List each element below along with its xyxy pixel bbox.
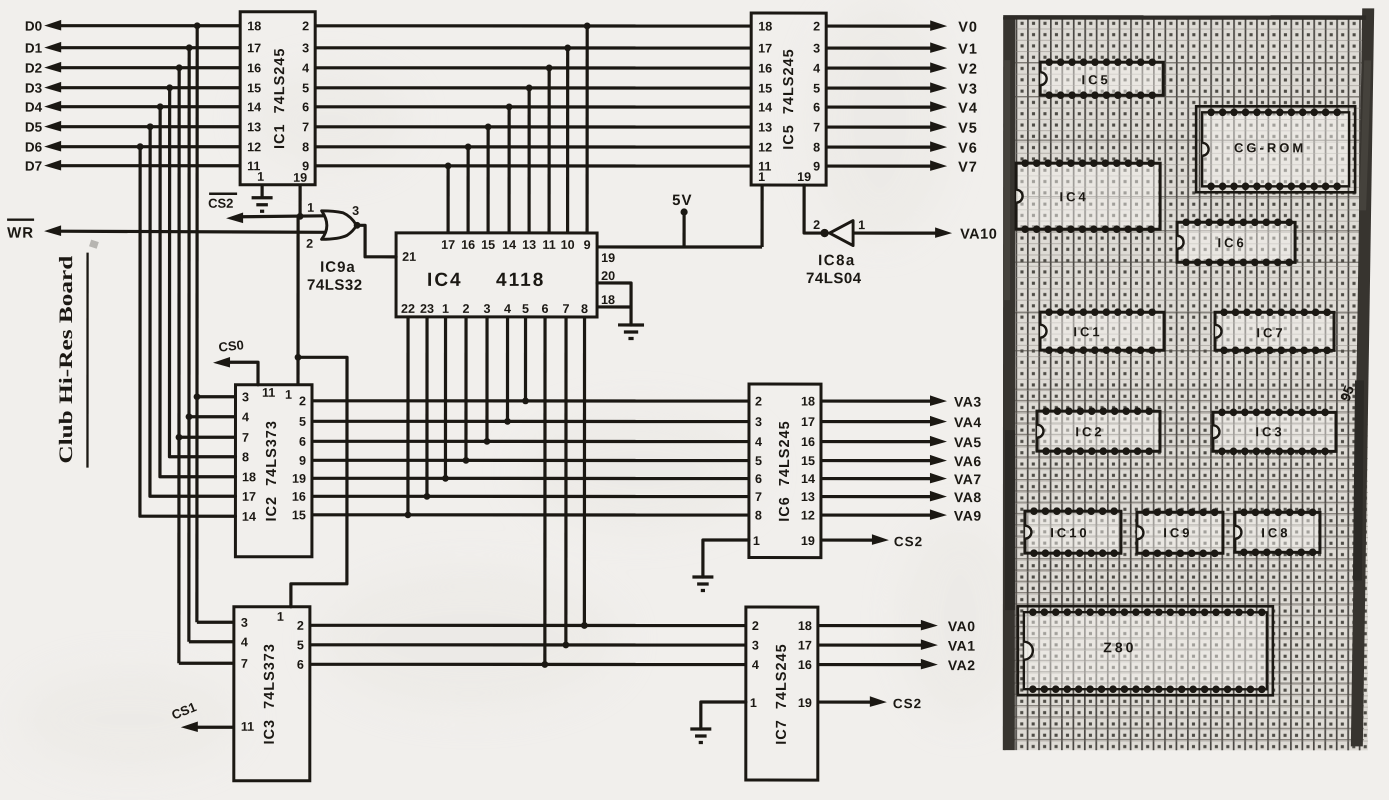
svg-text:7: 7 <box>302 120 309 134</box>
svg-text:18: 18 <box>247 19 261 33</box>
wire latch-enable link <box>291 216 347 607</box>
wire CS0 <box>213 337 258 385</box>
wire IC4 pin 13 <box>526 85 533 233</box>
board right dark edge <box>1351 8 1374 746</box>
svg-text:6: 6 <box>813 101 820 115</box>
svg-text:V7: V7 <box>958 160 978 176</box>
svg-text:4: 4 <box>813 62 820 76</box>
svg-text:IC7: IC7 <box>1256 325 1285 340</box>
svg-text:VA10: VA10 <box>960 227 997 243</box>
svg-text:18: 18 <box>801 395 815 409</box>
wire D2 to latch <box>175 68 235 664</box>
wire data row 2 IC1-IC5 <box>315 66 751 69</box>
wire IC4 pin 11 <box>546 65 553 233</box>
wire CS2 from IC7 <box>818 696 922 711</box>
power 5V <box>672 192 692 247</box>
svg-text:14: 14 <box>502 238 516 252</box>
svg-text:1: 1 <box>442 302 449 316</box>
op IC6 74LS245 <box>749 384 821 558</box>
wire IC4 bottom pin 1 <box>504 317 511 425</box>
wire D3 to latch <box>169 88 235 457</box>
wire D7 <box>25 159 240 174</box>
svg-text:19: 19 <box>801 534 815 548</box>
wire V0 <box>826 20 978 36</box>
svg-text:V1: V1 <box>958 42 978 58</box>
svg-text:16: 16 <box>801 435 815 449</box>
svg-text:IC2 74LS373: IC2 74LS373 <box>264 420 280 521</box>
wire IC4 pin 17 <box>445 162 452 232</box>
svg-text:13: 13 <box>758 121 772 135</box>
board IC6 footprint <box>1177 218 1295 266</box>
ground IC7 pin1 <box>690 702 746 743</box>
svg-text:2: 2 <box>463 302 470 316</box>
svg-text:V2: V2 <box>958 62 978 78</box>
svg-text:16: 16 <box>461 238 475 252</box>
wire VA1 row <box>310 643 746 646</box>
board IC4 footprint <box>1016 159 1160 233</box>
svg-text:6: 6 <box>297 658 304 672</box>
svg-text:IC6: IC6 <box>1217 235 1246 250</box>
svg-text:7: 7 <box>242 431 249 445</box>
svg-text:6: 6 <box>755 472 762 486</box>
svg-text:17: 17 <box>801 415 815 429</box>
svg-text:8: 8 <box>755 509 762 523</box>
scan noise <box>20 0 1020 770</box>
wire D0 to latch <box>193 26 235 623</box>
svg-text:23: 23 <box>420 302 434 316</box>
svg-text:D0: D0 <box>25 19 42 34</box>
svg-text:5V: 5V <box>672 192 692 209</box>
svg-text:18: 18 <box>242 470 256 484</box>
wire IC4 bottom pin 7 <box>541 317 548 668</box>
svg-text:3: 3 <box>755 415 762 429</box>
wire VA7 output <box>821 471 982 487</box>
wire VA5 row <box>312 440 749 443</box>
svg-text:VA8: VA8 <box>954 489 982 505</box>
svg-text:18: 18 <box>798 619 812 633</box>
svg-text:D7: D7 <box>25 159 42 174</box>
wire CS2 from IC6 <box>821 534 923 549</box>
svg-text:VA9: VA9 <box>954 508 982 524</box>
wire IC4 bottom pin 8 <box>562 317 569 648</box>
svg-text:3: 3 <box>241 616 248 630</box>
wire VA1 output <box>818 638 976 654</box>
svg-text:3: 3 <box>813 42 820 56</box>
wire IC4 bottom pin 6 <box>405 317 412 518</box>
svg-text:4: 4 <box>302 61 309 75</box>
wire OR output to IC4 pin21 <box>357 225 396 257</box>
ground IC6 pin1 <box>692 540 749 591</box>
svg-text:11: 11 <box>241 720 254 734</box>
svg-text:19: 19 <box>601 251 615 265</box>
svg-text:14: 14 <box>801 472 815 486</box>
svg-text:V0: V0 <box>958 20 978 36</box>
svg-text:19: 19 <box>797 170 811 184</box>
svg-text:9: 9 <box>299 454 306 468</box>
svg-text:VA1: VA1 <box>948 638 976 654</box>
wire V6 <box>826 141 978 157</box>
svg-text:1: 1 <box>277 610 284 624</box>
wire D5 to latch <box>150 127 236 497</box>
svg-text:IC9: IC9 <box>1163 525 1192 540</box>
svg-text:V3: V3 <box>958 82 978 98</box>
svg-text:4118: 4118 <box>496 270 545 291</box>
svg-text:VA6: VA6 <box>954 453 982 469</box>
board IC3 footprint <box>1213 408 1336 455</box>
svg-text:16: 16 <box>758 62 772 76</box>
svg-text:1: 1 <box>750 696 757 710</box>
op IC5 74LS245 <box>751 13 826 185</box>
svg-text:16: 16 <box>798 658 812 672</box>
svg-text:IC4: IC4 <box>427 270 463 291</box>
svg-text:14: 14 <box>758 101 772 115</box>
svg-text:7: 7 <box>755 490 762 504</box>
svg-text:3: 3 <box>752 639 759 653</box>
wire data row 7 IC1-IC5 <box>315 164 751 167</box>
svg-text:4: 4 <box>755 435 762 449</box>
svg-text:20: 20 <box>601 269 615 283</box>
wire VA6 output <box>821 453 982 469</box>
wire 5V rail IC4 pin19 to IC5 pin1 <box>597 185 762 247</box>
svg-text:19: 19 <box>293 171 307 185</box>
board top edge <box>1003 15 1366 20</box>
svg-text:74LS32: 74LS32 <box>307 277 363 294</box>
svg-text:2: 2 <box>306 237 313 251</box>
svg-text:Club Hi-Res Board: Club Hi-Res Board <box>56 255 77 464</box>
svg-text:2: 2 <box>302 19 309 33</box>
svg-text:16: 16 <box>292 490 306 504</box>
wire D1 <box>25 41 240 56</box>
wire D1 to latch <box>185 48 235 642</box>
svg-text:5: 5 <box>299 415 306 429</box>
wire IC4 bottom pin 5 <box>424 317 431 500</box>
svg-text:3: 3 <box>302 41 309 55</box>
svg-text:Z80: Z80 <box>1103 639 1136 655</box>
board IC8 footprint <box>1235 508 1320 556</box>
svg-text:V5: V5 <box>958 121 978 137</box>
wire V7 <box>826 160 978 176</box>
wire VA0 row <box>310 624 746 627</box>
wire WR <box>7 220 325 242</box>
svg-text:15: 15 <box>758 82 772 96</box>
svg-text:CG-ROM: CG-ROM <box>1234 140 1306 155</box>
svg-text:V4: V4 <box>958 101 978 117</box>
svg-text:IC1 74LS245: IC1 74LS245 <box>272 48 288 149</box>
wire V3 <box>826 82 978 98</box>
svg-text:74LS04: 74LS04 <box>806 270 862 287</box>
wire IC5 pin19 <box>804 185 821 233</box>
op IC7 74LS245 <box>746 607 818 780</box>
wire VA8 row <box>312 495 749 498</box>
svg-text:3: 3 <box>242 390 249 404</box>
wire VA2 row <box>310 663 746 666</box>
svg-text:VA3: VA3 <box>954 394 982 410</box>
op-amp IC9a 74LS32 OR gate <box>306 201 363 294</box>
svg-text:3: 3 <box>484 302 491 316</box>
board Z80 footprint <box>1018 606 1273 695</box>
svg-text:17: 17 <box>242 490 256 504</box>
svg-text:21: 21 <box>402 250 416 264</box>
wire VA7 row <box>312 477 749 480</box>
wire D6 to latch <box>140 147 236 517</box>
board left dark edge <box>1003 17 1015 750</box>
svg-text:17: 17 <box>441 238 455 252</box>
svg-text:12: 12 <box>758 141 772 155</box>
svg-text:14: 14 <box>247 100 261 114</box>
svg-text:13: 13 <box>801 490 815 504</box>
PCB layout board <box>1004 17 1368 750</box>
svg-text:5: 5 <box>755 454 762 468</box>
svg-text:IC3: IC3 <box>1255 424 1284 439</box>
svg-text:IC2: IC2 <box>1075 424 1104 439</box>
svg-text:5: 5 <box>297 638 304 652</box>
svg-text:CS0: CS0 <box>218 337 245 355</box>
op IC1 74LS245 <box>240 12 315 185</box>
svg-text:D4: D4 <box>25 100 43 115</box>
wire VA4 output <box>821 414 982 430</box>
op IC4 4118 <box>396 233 615 317</box>
svg-text:1: 1 <box>753 534 760 548</box>
wire D4 to latch <box>160 107 236 477</box>
svg-text:17: 17 <box>247 41 261 55</box>
svg-text:19: 19 <box>798 696 812 710</box>
svg-text:14: 14 <box>242 510 256 524</box>
wire VA3 output <box>821 394 982 410</box>
svg-text:3: 3 <box>352 204 359 218</box>
ground IC4 <box>618 325 644 339</box>
svg-text:1: 1 <box>858 218 865 232</box>
wire V5 <box>826 121 978 137</box>
wire VA5 output <box>821 434 982 450</box>
svg-text:15: 15 <box>801 454 815 468</box>
wire VA2 output <box>818 657 976 673</box>
svg-text:13: 13 <box>522 238 536 252</box>
wire data row 5 IC1-IC5 <box>315 125 751 128</box>
svg-text:8: 8 <box>581 302 588 316</box>
svg-text:IC7 74LS245: IC7 74LS245 <box>774 643 790 744</box>
wire VA3 row <box>312 399 749 402</box>
svg-text:1: 1 <box>285 388 292 402</box>
wire IC4 pin 15 <box>485 123 492 232</box>
svg-text:CS2: CS2 <box>894 534 923 549</box>
svg-text:18: 18 <box>758 20 772 34</box>
wire VA6 row <box>312 459 749 462</box>
svg-text:2: 2 <box>813 218 820 232</box>
svg-text:IC5: IC5 <box>1082 72 1111 87</box>
wire IC4 pin 14 <box>506 104 513 233</box>
svg-text:2: 2 <box>813 20 820 34</box>
margin scribble 95 <box>1337 383 1357 403</box>
wire D2 <box>25 61 240 76</box>
svg-text:5: 5 <box>522 302 529 316</box>
svg-text:5: 5 <box>813 82 820 96</box>
wire D4 <box>25 100 240 115</box>
svg-text:1: 1 <box>257 170 264 184</box>
svg-text:11: 11 <box>542 238 555 252</box>
board row lines <box>1006 63 1364 351</box>
svg-text:IC5 74LS245: IC5 74LS245 <box>781 48 797 149</box>
svg-text:11: 11 <box>262 386 275 400</box>
svg-text:4: 4 <box>242 410 249 424</box>
wire VA10 <box>853 227 997 243</box>
svg-text:4: 4 <box>241 635 248 649</box>
svg-text:4: 4 <box>752 658 759 672</box>
op IC2 74LS373 <box>235 385 312 557</box>
op IC3 74LS373 <box>234 607 310 781</box>
svg-text:V6: V6 <box>958 141 978 157</box>
svg-text:13: 13 <box>247 120 261 134</box>
svg-text:8: 8 <box>302 140 309 154</box>
wire data row 0 IC1-IC5 <box>315 24 751 27</box>
wire data row 6 IC1-IC5 <box>315 145 751 148</box>
svg-text:15: 15 <box>247 81 261 95</box>
svg-text:VA7: VA7 <box>954 471 982 487</box>
svg-text:IC6 74LS245: IC6 74LS245 <box>777 420 793 521</box>
op IC8a 74LS04 inverter <box>806 218 865 287</box>
wire IC4 bottom pin 2 <box>484 317 491 445</box>
ground IC1 pin1 <box>252 185 273 212</box>
svg-text:D3: D3 <box>25 81 43 96</box>
svg-text:2: 2 <box>752 619 759 633</box>
board IC7 footprint <box>1215 308 1334 354</box>
svg-text:IC3 74LS373: IC3 74LS373 <box>262 643 278 744</box>
svg-text:IC8a: IC8a <box>818 252 856 269</box>
svg-text:7: 7 <box>241 657 248 671</box>
svg-text:8: 8 <box>813 141 820 155</box>
wire IC4 pin 10 <box>564 45 571 233</box>
svg-text:6: 6 <box>299 435 306 449</box>
svg-text:19: 19 <box>292 472 306 486</box>
svg-text:7: 7 <box>813 121 820 135</box>
wire D3 <box>25 81 240 96</box>
svg-text:17: 17 <box>758 42 772 56</box>
svg-text:9: 9 <box>813 160 820 174</box>
wire V4 <box>826 101 978 117</box>
wire data row 4 IC1-IC5 <box>315 105 751 108</box>
svg-text:IC8: IC8 <box>1261 525 1290 540</box>
board IC1 footprint <box>1040 308 1164 354</box>
wire IC4 bottom pin 0 <box>522 317 529 404</box>
wire D5 <box>25 120 240 135</box>
svg-text:CS2: CS2 <box>893 696 922 711</box>
svg-text:2: 2 <box>299 394 306 408</box>
svg-text:15: 15 <box>481 238 495 252</box>
svg-text:1: 1 <box>758 170 765 184</box>
svg-text:17: 17 <box>798 639 812 653</box>
board CG-ROM footprint <box>1196 106 1355 192</box>
wire VA4 row <box>312 420 749 423</box>
wire CS2 enable net <box>208 185 324 223</box>
wire data row 3 IC1-IC5 <box>315 86 751 89</box>
svg-text:IC1: IC1 <box>1073 324 1102 339</box>
svg-text:4: 4 <box>504 302 511 316</box>
wire VA9 row <box>312 513 749 516</box>
svg-text:WR: WR <box>7 225 34 242</box>
svg-text:VA4: VA4 <box>954 414 982 430</box>
svg-text:12: 12 <box>247 140 261 154</box>
svg-text:15: 15 <box>292 508 306 522</box>
wire V2 <box>826 62 978 78</box>
wire IC4 pin20/18 <box>597 283 631 325</box>
wire VA8 output <box>821 489 982 505</box>
wire IC4 pin 16 <box>465 143 472 232</box>
board IC10 footprint <box>1025 507 1121 557</box>
svg-text:IC4: IC4 <box>1059 189 1088 204</box>
svg-text:D2: D2 <box>25 61 42 76</box>
wire IC4 bottom pin 3 <box>463 317 470 464</box>
svg-text:CS2: CS2 <box>208 196 233 211</box>
svg-text:18: 18 <box>601 293 615 307</box>
svg-text:10: 10 <box>561 238 575 252</box>
title Club Hi-Res Board <box>56 240 99 468</box>
svg-text:8: 8 <box>242 450 249 464</box>
board IC5 footprint <box>1040 58 1163 99</box>
svg-text:6: 6 <box>302 100 309 114</box>
wire D6 <box>25 140 240 155</box>
wire IC4 bottom pin 9 <box>581 317 588 629</box>
board IC9 footprint <box>1137 508 1223 557</box>
svg-text:5: 5 <box>302 81 309 95</box>
svg-text:IC9a: IC9a <box>320 259 356 276</box>
wire CS1 <box>169 699 234 732</box>
svg-text:VA2: VA2 <box>948 657 976 673</box>
svg-text:7: 7 <box>563 302 570 316</box>
svg-text:6: 6 <box>542 302 549 316</box>
svg-text:16: 16 <box>247 61 261 75</box>
svg-text:IC10: IC10 <box>1050 525 1089 540</box>
svg-text:22: 22 <box>401 302 415 316</box>
svg-text:12: 12 <box>801 509 815 523</box>
svg-text:1: 1 <box>307 201 314 215</box>
svg-text:D1: D1 <box>25 41 43 56</box>
wire IC4 bottom pin 4 <box>442 317 449 482</box>
wire VA9 output <box>821 508 982 524</box>
svg-text:VA5: VA5 <box>954 434 982 450</box>
wire data row 1 IC1-IC5 <box>315 46 751 49</box>
wire VA0 output <box>818 618 976 634</box>
board IC2 footprint <box>1037 407 1160 455</box>
svg-text:D6: D6 <box>25 140 43 155</box>
wire D0 <box>25 19 240 34</box>
board lower grid lines <box>1006 389 1364 739</box>
wire V1 <box>826 42 978 58</box>
svg-text:9: 9 <box>584 238 591 252</box>
svg-text:2: 2 <box>297 619 304 633</box>
svg-text:D5: D5 <box>25 120 43 135</box>
svg-text:VA0: VA0 <box>948 618 976 634</box>
svg-text:2: 2 <box>755 395 762 409</box>
wire IC4 pin 9 <box>584 23 591 233</box>
